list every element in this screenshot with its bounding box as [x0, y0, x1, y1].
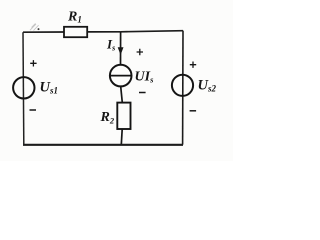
minus sign of UIs [139, 92, 146, 94]
svg-text:Us1: Us1 [40, 80, 59, 96]
minus sign of Us2 [190, 110, 197, 112]
svg-text:Is: Is [106, 37, 115, 53]
wire left branch [22, 32, 25, 144]
wire bottom [23, 144, 183, 146]
voltage source Us2 circle [172, 75, 193, 96]
plus sign of Us1 [30, 60, 36, 66]
svg-text:R2: R2 [100, 110, 115, 125]
wire right branch [182, 31, 184, 145]
scan dot artifact [38, 28, 40, 30]
wire top-left segment [23, 31, 64, 33]
current source U Is circle [110, 65, 132, 87]
plus sign of UIs [137, 49, 143, 55]
svg-text:R1: R1 [67, 10, 82, 25]
scan scratch artifact [30, 23, 39, 30]
wire top-middle segment [87, 31, 120, 33]
wire top-right segment [121, 31, 183, 32]
wire middle branch lower [120, 129, 123, 145]
wire middle branch between source and R2 [121, 86, 123, 102]
minus sign of Us1 [30, 109, 37, 111]
resistor R2 [117, 103, 130, 129]
arrowhead current Is direction [118, 47, 124, 55]
voltage source Us1 circle [13, 77, 34, 98]
wire middle branch upper [120, 32, 122, 65]
current source bar [110, 75, 131, 77]
plus sign of Us2 [190, 62, 196, 68]
svg-text:Us2: Us2 [198, 77, 217, 93]
resistor R1 [64, 27, 87, 37]
svg-text:UIs: UIs [135, 69, 155, 84]
